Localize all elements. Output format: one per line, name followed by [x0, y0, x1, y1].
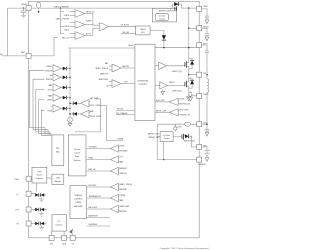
svg-text:SCL: SCL: [50, 244, 54, 246]
current source IQ4: [174, 124, 176, 131]
svg-text:Q4 Gate: Q4 Gate: [163, 134, 170, 137]
junction BTST/diode: [163, 47, 164, 48]
wire PMID rail down to HSFET: [188, 8, 190, 58]
svg-text:VAC_OV: VAC_OV: [62, 36, 70, 39]
junction C_VBUS tap: [23, 8, 24, 9]
pin REGN: [197, 26, 202, 31]
comparator U7 UVP: [112, 80, 121, 88]
svg-text:Input: Input: [37, 170, 41, 173]
svg-text:VVBUS: VVBUS: [46, 66, 53, 68]
svg-text:ITERM: ITERM: [118, 139, 124, 141]
wire U2 output to gate: [85, 24, 93, 26]
wire DPM bus: [69, 48, 71, 118]
wire BATSHORT: [87, 217, 111, 219]
diode D1 REGN: [162, 35, 166, 40]
ground under bus current source: [69, 121, 71, 124]
svg-text:ITERM: ITERM: [119, 195, 125, 197]
diode D2: [63, 67, 67, 71]
capacitor C_BTST external to SW: [202, 45, 207, 51]
svg-text:Interface: Interface: [56, 224, 63, 227]
svg-text:Charger: Charger: [74, 149, 81, 151]
diode pair clamp on D-: [35, 208, 38, 212]
battery symbol external: [202, 147, 207, 150]
svg-text:IC S.: IC S.: [119, 157, 123, 159]
block Charger State Machine: [68, 135, 86, 176]
wire EN_HIZ into REGN LDO: [121, 33, 136, 35]
wire loop feedback 3: [36, 89, 50, 134]
svg-text:EN_CHARGE: EN_CHARGE: [116, 112, 128, 115]
svg-text:CONTROL: CONTROL: [138, 84, 147, 86]
svg-text:Source: Source: [37, 175, 43, 177]
comparator U14 JEITA: [81, 110, 90, 117]
wire loop feedback 1: [29, 70, 45, 135]
transistor Q1 (blocking FET with body diode): [173, 4, 175, 8]
svg-text:HSFET (Q2): HSFET (Q2): [172, 71, 182, 73]
ground marker under LS driver: [162, 90, 164, 92]
current source bus pulldown (circle): [68, 118, 73, 123]
comparator U22: [110, 156, 118, 163]
svg-text:VBAT + VSLEEP: VBAT + VSLEEP: [56, 17, 70, 20]
wire EN_CHARGE into converter control: [116, 114, 135, 116]
transistor Q3 LSFET: [184, 82, 186, 86]
svg-text:SUSPEND: SUSPEND: [89, 224, 98, 226]
junction REGN node: [188, 28, 189, 29]
svg-text:VBATGD: VBATGD: [119, 172, 127, 175]
wire SUSPEND: [87, 225, 111, 227]
wire VAC to ACOV comparator input: [31, 37, 58, 56]
capacitor C_VBUS: [23, 8, 25, 11]
svg-text:VBUS: VBUS: [21, 4, 27, 6]
svg-text:Adapter: Adapter: [55, 180, 62, 183]
svg-text:BAT TEMP: BAT TEMP: [90, 97, 100, 100]
comparator U8 VINDPM: [53, 65, 61, 72]
comparator U2 SLEEP: [75, 21, 85, 29]
wire EN_HIZ into converter control: [116, 109, 135, 111]
svg-text:Machine: Machine: [74, 160, 81, 162]
svg-text:VSYSMIN: VSYSMIN: [119, 151, 128, 153]
diode D7 (JEITA): [72, 102, 74, 106]
svg-text:VBUS: VBUS: [64, 29, 70, 31]
comparator U13 BAT TEMP: [81, 100, 90, 107]
svg-text:Control: Control: [74, 152, 80, 155]
amplifier A2 LS gate driver: [160, 82, 168, 89]
svg-text:REVFET (Q1): REVFET (Q1): [159, 10, 171, 12]
svg-text:BATSNS: BATSNS: [119, 188, 127, 191]
comparator U12 TREG: [53, 105, 61, 112]
wire LSFET source to PGND pin: [189, 95, 197, 97]
comparator U11 VREG: [53, 94, 61, 101]
pin PMID: [197, 6, 202, 11]
diode pair clamp on D+: [35, 193, 38, 197]
block CONVERTER CONTROL: [135, 44, 155, 120]
wire VBUS sense drop to comparator inputs: [60, 8, 62, 33]
svg-text:OTG: OTG: [15, 209, 19, 211]
svg-text:VSYSMIN: VSYSMIN: [89, 147, 98, 149]
svg-text:KILIM: KILIM: [180, 99, 185, 101]
svg-text:BATFET_EN: BATFET_EN: [148, 136, 159, 139]
ground arrow under battery: [205, 158, 209, 162]
wire gate output to REGN LDO: [107, 26, 135, 29]
svg-text:VINDPM: VINDPM: [45, 70, 52, 72]
wire SYS rail: [158, 123, 197, 125]
pin SDA: [62, 235, 67, 240]
svg-text:D+: D+: [17, 194, 19, 196]
current source KILIM (oval): [189, 92, 192, 96]
pin OTG: [26, 221, 31, 226]
wire adapter input loop down to VAC: [7, 8, 9, 56]
svg-text:ILIM_CMP: ILIM_CMP: [156, 100, 165, 102]
wire loop feedback 4: [39, 100, 51, 135]
diode D5: [63, 96, 67, 100]
transistor INT open-drain: [70, 231, 72, 233]
pin D+: [26, 191, 31, 196]
comparator U20 DPM: [169, 109, 178, 116]
svg-text:PGND: PGND: [203, 94, 209, 96]
svg-text:VBUS_GD: VBUS_GD: [86, 11, 95, 13]
svg-text:IINDPM_LIM: IINDPM_LIM: [180, 103, 191, 105]
ground under D- clamp: [41, 212, 43, 214]
svg-text:ICHG: ICHG: [48, 89, 53, 91]
svg-text:VAC: VAC: [21, 51, 26, 54]
diode D6: [63, 107, 67, 111]
svg-text:SLEEP: SLEEP: [86, 21, 93, 23]
svg-text:VREG: VREG: [47, 100, 53, 102]
comparator U23: [110, 167, 118, 174]
current source Q4 bias (oval on SYS rail): [185, 122, 191, 126]
ground under OTG clamp: [41, 226, 43, 228]
svg-text:BATSHORT: BATSHORT: [89, 215, 100, 218]
svg-text:LDO: LDO: [141, 32, 145, 34]
svg-text:TJ: TJ: [50, 106, 52, 108]
pin SW: [197, 72, 202, 77]
comparator U10 ICHG: [53, 84, 61, 91]
junction SW node: [188, 74, 189, 75]
svg-text:REGN_CMP: REGN_CMP: [156, 111, 167, 113]
comparator U21: [110, 145, 118, 152]
junction VBUS sense tap: [60, 8, 61, 9]
svg-text:State: State: [75, 155, 79, 158]
logic gate U4 (OR): [99, 23, 107, 30]
wire loop feedback 2: [33, 79, 48, 135]
comparator U26: [110, 205, 118, 212]
current source I_BUS (oval on top rail): [37, 2, 41, 8]
svg-text:VINDPM_TH: VINDPM_TH: [180, 114, 191, 116]
capacitor C_REGN external: [202, 28, 207, 33]
pin BTST: [197, 43, 202, 48]
svg-text:SW: SW: [203, 73, 206, 75]
svg-text:BATSNS: BATSNS: [119, 210, 127, 213]
wire BTST rail: [155, 47, 197, 49]
svg-text:IDSG: IDSG: [177, 126, 182, 128]
pin D-: [26, 207, 31, 212]
wire loop feedback 5: [42, 110, 52, 135]
svg-text:BATOVP: BATOVP: [122, 65, 130, 68]
svg-text:Control: Control: [159, 18, 165, 21]
IC boundary: [29, 1, 200, 238]
svg-text:BATFET_DIS: BATFET_DIS: [148, 132, 160, 135]
wire REGN LDO output to diode: [150, 31, 164, 36]
svg-text:VRCH_JEITA: VRCH_JEITA: [90, 115, 102, 118]
svg-text:EN_HIZ: EN_HIZ: [123, 32, 130, 34]
svg-text:VBAT - VRECH: VBAT - VRECH: [119, 183, 132, 186]
comparator U9 IINDPM: [53, 74, 61, 81]
block REVFET (Q1) gate control: [152, 8, 176, 22]
diode pair clamp on OTG: [35, 222, 38, 226]
block Q4 Gate Control: [160, 132, 173, 142]
pin PGND: [197, 93, 202, 98]
comparator U25: [110, 194, 118, 201]
svg-text:BATSNS: BATSNS: [199, 163, 207, 166]
transistor Q2 HSFET: [184, 62, 186, 66]
ground arrow under KILIM: [188, 97, 192, 101]
wire Q4 gate control to BATSNS node: [163, 142, 165, 160]
junction BATSNS/Q4: [163, 159, 164, 160]
svg-text:EN_HIZ: EN_HIZ: [117, 109, 124, 111]
wire SW to pin: [189, 74, 197, 76]
ground arrow under C_REGN: [205, 37, 209, 41]
ground arrow under C_SYS: [205, 132, 209, 136]
svg-text:VBATOVP: VBATOVP: [100, 73, 109, 76]
svg-text:IINDPM: IINDPM: [46, 79, 53, 81]
ground under D+ clamp: [41, 197, 43, 199]
svg-text:REGN: REGN: [140, 29, 146, 31]
pin SYS: [197, 122, 202, 127]
comparator U24: [110, 183, 118, 190]
pin SCL: [49, 235, 54, 240]
svg-text:VBATLOWV: VBATLOWV: [119, 205, 130, 208]
svg-text:Q1 Gate: Q1 Gate: [159, 15, 166, 18]
svg-text:VBATLOWV: VBATLOWV: [98, 78, 109, 81]
svg-text:BATSNS: BATSNS: [119, 167, 127, 170]
wire to REGN pin: [189, 27, 197, 29]
svg-text:Detection: Detection: [36, 177, 44, 180]
svg-text:VBAT + VRECH: VBAT + VRECH: [95, 67, 109, 70]
svg-text:RPU / RPD: RPU / RPD: [180, 110, 190, 112]
wire JEITA input feeds: [75, 99, 101, 132]
diode D4: [63, 86, 67, 90]
ground arrow under C_PMID: [205, 20, 209, 24]
pin INT: [70, 235, 75, 240]
svg-text:BAT_GD: BAT_GD: [89, 168, 97, 171]
amplifier A1 HS gate driver: [159, 62, 167, 69]
block U5 REGN LDO: [136, 26, 151, 35]
ground under C_VBUS: [21, 14, 26, 16]
block REF DAC: [52, 135, 64, 166]
wire REGN supply into converter control: [68, 47, 135, 49]
wire U1/U3 outputs to gate: [85, 14, 99, 26]
svg-text:VSYS: VSYS: [119, 146, 125, 148]
comparator U6 BATOVP: [112, 64, 121, 72]
wire detection to USB block: [47, 177, 52, 179]
svg-text:MACHINE: MACHINE: [74, 205, 83, 208]
wire SYS drop to Q4 gate control: [156, 124, 158, 159]
svg-text:CONTROL: CONTROL: [74, 199, 83, 201]
diode D3: [63, 76, 67, 80]
wire VBUS external to input cap: [8, 7, 27, 9]
pin BATSNS: [197, 157, 202, 162]
svg-text:PMID: PMID: [203, 6, 208, 8]
svg-text:BATLOWV: BATLOWV: [89, 206, 98, 209]
svg-text:VBUS: VBUS: [64, 15, 70, 17]
svg-text:REGN: REGN: [128, 45, 134, 47]
pin BAT: [197, 145, 202, 150]
svg-text:LSFET (Q3): LSFET (Q3): [172, 91, 182, 93]
node VAC: pin pad on IC left edge: [26, 53, 31, 58]
wire VBUS internal top rail: [31, 7, 174, 9]
svg-text:STATE: STATE: [75, 201, 81, 204]
svg-text:ACOV: ACOV: [86, 32, 92, 35]
svg-text:TERMINATION: TERMINATION: [89, 195, 102, 198]
svg-text:Control: Control: [164, 137, 170, 140]
wire VAC external: [2, 55, 27, 57]
wire BATSNS sense routing: [157, 159, 197, 161]
svg-text:CONVERTER: CONVERTER: [137, 80, 149, 82]
comparator U19 ILIM: [169, 98, 178, 105]
junction PMID rail: [188, 7, 189, 8]
svg-text:VVBUS_PRESENT: VVBUS_PRESENT: [54, 7, 70, 9]
svg-text:VBUS: VBUS: [64, 26, 70, 28]
wire Q1 drain to PMID pad: [182, 7, 197, 9]
block USB interface: [52, 174, 64, 184]
svg-text:BATFET (Q4): BATFET (Q4): [184, 139, 195, 142]
block Charge Control State Machine: [70, 186, 87, 219]
svg-text:RECHRG: RECHRG: [89, 185, 97, 187]
capacitor C_PMID external: [202, 9, 207, 16]
node VBUS: pin pad on IC left edge: [26, 6, 31, 11]
inductor L1 external: [207, 75, 209, 125]
ground PGND arrow: [187, 97, 192, 101]
block I2C Interface: [52, 215, 66, 231]
svg-text:CE_RCHG: CE_RCHG: [120, 24, 129, 26]
pin PSEL: [26, 176, 31, 181]
diode D8 (JEITA): [72, 112, 74, 116]
svg-text:REGN: REGN: [169, 82, 175, 84]
svg-text:TREG: TREG: [47, 110, 53, 112]
svg-text:PSEL: PSEL: [14, 179, 19, 181]
comparator U3 ACOV: [75, 32, 85, 40]
transistor Q4 BATFET: [173, 136, 181, 138]
block Input Source Detection: [32, 167, 47, 183]
comparator U1 VBUS_GD: [75, 10, 85, 18]
svg-text:CHARGE: CHARGE: [74, 194, 82, 197]
capacitor C_SYS external: [202, 124, 207, 129]
